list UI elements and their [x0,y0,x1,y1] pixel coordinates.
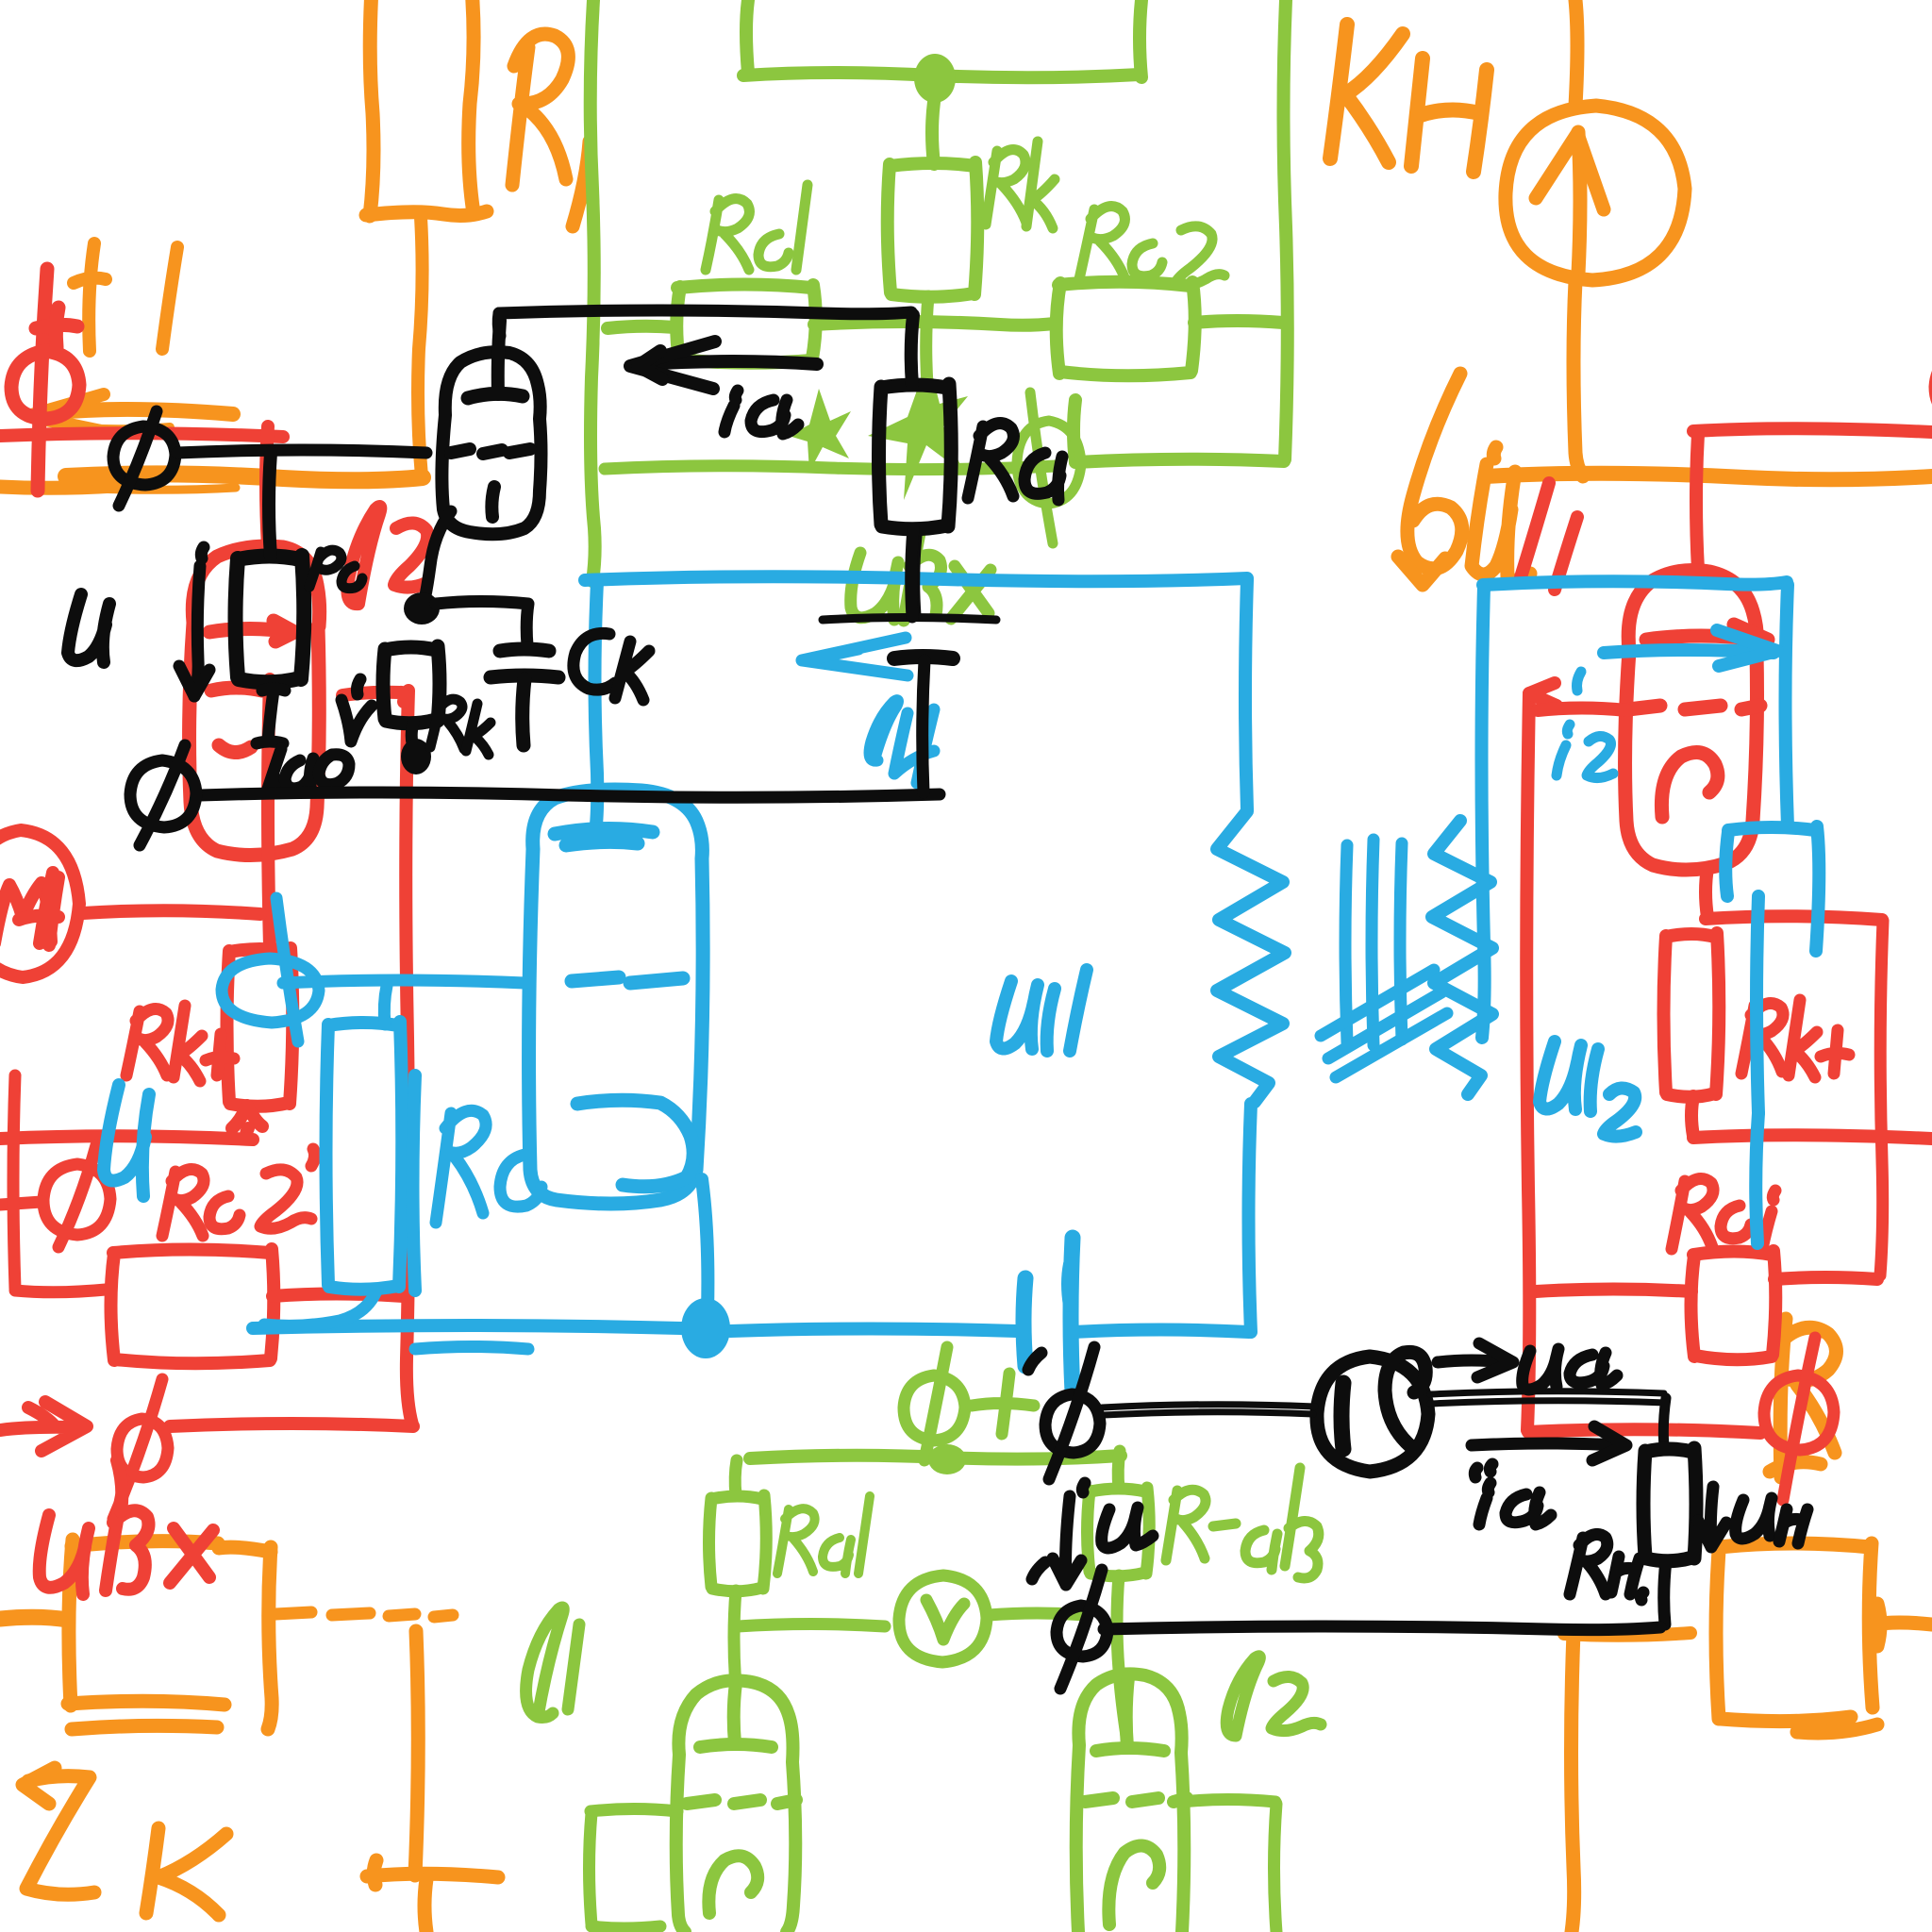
resistor Rc1 (red horizontal box, right) [1691,1251,1776,1359]
wire: red top-right horizontal (y~456) [1693,428,1932,432]
resistor Rk (green vertical box) [888,162,978,297]
resistor Ra1 (green vertical box) [709,1495,767,1591]
resistor Rn (black vertical box) [1643,1448,1696,1561]
resistor Rk2 (red vertical box) [227,948,293,1138]
wire: blue horizontal phi to Rc (y~1041) [283,980,525,983]
node phi (red small circle bottom-left) [113,1379,168,1519]
label Ubx (green) [851,528,991,621]
impedance box Zk (bottom-left orange square) [68,1540,272,1729]
resistor W2 zigzag (blue) [1432,821,1492,1094]
node (green blob at top) [914,54,956,103]
wire: Rc1 left lead (y~1368) [1536,1290,1691,1292]
wire: V1 grid lead down-left to node [425,511,451,600]
wire: blue right rect right edge [1786,585,1789,826]
wire: Rk1 bottom lead [1691,1096,1693,1136]
resistor Rc1 (green horizontal box) [676,285,816,363]
resistor W1 zigzag (blue) [1217,811,1285,1102]
wire: green bottom jog (y~489) [1075,459,1284,462]
label Re (black) [309,550,362,589]
label Rk4 (red) [126,1006,234,1081]
resistor R (top-left orange box) [366,0,487,216]
wire: phi1 + horizontal wire (y~478) [113,411,426,506]
wire: grid wire right of L2 [1183,1800,1275,1803]
node phi4 (black circle with slash) [1032,1562,1108,1689]
arrow i down (black, left of Re) [179,547,209,696]
node phi3 (black circle with slash) [1028,1347,1100,1479]
node (black dot) [404,592,440,625]
wire: Rab top lead [1118,1451,1120,1489]
resistor Rc (blue vertical box) [326,1022,416,1291]
wire: blue horizontal right of capacitor [1074,1330,1249,1333]
wire: green top bus with corner [743,0,1141,77]
wire: blue top horizontal (y~613) [585,576,1247,581]
wire: Rc1 right lead [1774,1277,1877,1279]
wire: orange horizontal band (left, y~507) [66,474,423,480]
label Rc1 (green) [706,185,808,270]
wire/arrow: red arrow bottom-left [0,1402,413,1451]
node phi2 (black circle with slash) [130,745,196,845]
label R' (big orange letter R-prime) [512,34,590,226]
current source (orange circle with up arrow) [1506,0,1685,476]
label m slashes (red, //) [1521,483,1577,590]
wire: red lead below tube [1706,868,1707,917]
resistor Rab (green vertical box) [1088,1488,1150,1576]
node phi (red circle bottom right) [1764,1338,1834,1500]
label R-ab (green) [1166,1468,1319,1578]
label L2 (red script, near tube) [347,507,427,604]
resistor Ra (black vertical box) [879,384,952,529]
wire: green horizontal bus (y~1543) [750,1456,1121,1459]
label Ra (black) [968,424,1062,500]
wire: long green vertical (x~628) [591,0,595,581]
label U (blue tall script) [104,1085,149,1196]
battery (black plates) [823,618,996,621]
tube (big blue, middle-left) [529,790,704,1204]
wire: blue vertical upper (x~1323) [1245,580,1247,809]
arrow left + ia (black, top middle) [630,341,817,389]
wire: lead down to Ra1 [735,1460,737,1495]
wire: lead right of box to edge [1874,1604,1932,1646]
wire: long red vertical (x~432) [406,691,412,1424]
wire: Rk bottom lead + node [411,723,413,743]
tube L2 (green triode, bottom) [1076,1674,1187,1932]
capacitor (blue, two bars) [1024,1238,1073,1392]
wire: Ra bottom lead [911,528,913,617]
label Rc2 (green) [1079,207,1224,286]
tube V2 (black circle, bottom middle) [1317,1352,1428,1472]
wire: lead from Rk down to green phi [925,296,928,420]
wire: Ra top lead [911,315,913,385]
wire: short orange under black (y~1732) [1564,1633,1690,1636]
wire: grid wire left of L1 [591,1809,677,1812]
label Rk (green) [986,142,1055,228]
winding W2 box (blue, small) [1725,826,1819,1113]
wire: battery top lead [915,536,917,615]
node (blue blob) [681,1298,730,1358]
label Rk (black, small) [430,699,491,755]
tube L1 (green triode, bottom middle-left) [676,1680,796,1932]
wire: bottom return wire (y~1725) [1104,1626,1660,1630]
wire: orange vertical with T-foot (x~440 bottom) [367,1631,498,1932]
wire: blue bottom horizontal right of node [730,1329,1017,1332]
wire: red bottom corner (y~1518) [1528,1429,1760,1433]
label ia (black script) [724,391,798,434]
label u + arrow down (black, near Rab) [1053,1483,1153,1585]
wire: blue vertical (x~632) down to tube [595,582,598,834]
label L2 (green script) [1226,1657,1321,1736]
wire: thin double wire left of V2 (y~1489) [1102,1405,1315,1415]
wire: dashed orange lead right of Zk [275,1612,453,1617]
wire: blue lead below tube to node [702,1179,708,1311]
wire: long green horizontal (y~494) [605,466,1057,470]
wire: blue vertical (x~1326) up to zigzag [1249,1104,1252,1332]
arrow right + ia (black, second) [1472,1426,1626,1477]
node phi (red circle with slash) [0,1145,110,1247]
label ia (black, top-right of V2 wire) [1490,1464,1492,1472]
label Rk1 (red) [1741,1000,1849,1077]
label L1 (blue script near battery) [870,701,934,783]
label L1 (green script) [526,1607,579,1718]
resistor Rk (black box, small) [383,646,440,724]
tube (red rounded box, right) [1625,571,1768,871]
arrow right + Ua (black) [1438,1343,1513,1377]
wire: long green vertical #2 (x~1363) [1284,0,1288,459]
wire: Rab bottom lead down to tube L2 [1117,1575,1126,1736]
wire: red lead down into tube (x~284) [266,426,268,547]
resistor Re (black vertical box, thick) [236,556,305,682]
label ia (black script, second) [1479,1483,1551,1524]
wire: blue capacitor top bar piece (x~1133) [1068,1264,1070,1306]
label phi+ (red, top-left) [11,269,79,491]
voltmeter V (green circle) [899,1575,987,1662]
wire: blue vertical (x~1862) lower [1756,1113,1758,1243]
wire: Re top lead [269,453,271,557]
arrow (blue, pointing left at battery) [802,638,908,675]
resistor Rk1 (red vertical box) [1664,933,1720,1097]
wire: orange thick scribble with left arrow (y~440) [57,409,233,414]
label I ao (black, below Re) [257,689,349,791]
wire: Rc top lead [384,986,387,1024]
node phi+ (green, bottom middle) [904,1347,1034,1460]
wire: red horizontal from circle to Rk2 (y~968) [83,910,260,914]
label Rc2 (red) [162,1149,315,1236]
label Kн (top-right orange) [1330,25,1487,172]
label W2 (blue script) [1540,1041,1636,1137]
impedance box (bottom-right orange square) [1716,1543,1877,1733]
spark blob #1 (green scribble) [789,389,851,472]
wire: lead below Ra1 to V-meter branch [734,1591,736,1687]
wire: V1 anode lead up + long top wire (y~332) [498,310,911,336]
wire: Rc bottom lead curving to phi [264,1289,377,1325]
wire: blue right rect left edge [1482,587,1485,1038]
resistor Rc2 (green horizontal box) [1057,282,1195,376]
tube V1 (black triode top-left) [441,321,541,534]
label W1 (blue script) [996,970,1087,1051]
wire: red horizontal (y~973) [1706,916,1882,920]
label Ra1 (green) [777,1496,870,1574]
label t1 (orange part of phi+1) [74,243,106,351]
wire: Rc1-Rc2 series lead (passes behind Ra) [814,322,1055,325]
wire: orange vertical lead from R down [418,217,423,476]
capacitor Ck (black) [491,649,558,745]
wire: orange horizontal right (y~506) [1486,474,1932,480]
wire: long bottom wire (y~842) [200,792,940,797]
tube (red rounded box, left) [190,546,320,855]
wire: node to Ck branch [436,602,528,646]
wire: red vertical through tube down to Rk2 [268,679,270,947]
label Rci (red) [1672,1179,1775,1250]
label Rн (black) [1570,1534,1643,1600]
wire: Rc2 right lead to red vertical [273,1294,404,1297]
wire: V-meter to Rab node [989,1613,1085,1615]
transformer core (blue bars + hatch) [1321,840,1447,1077]
spark blob #2 (green scribble over Ra) [868,358,968,500]
wire: battery bottom lead down to wire [923,660,924,792]
wire: red horizontal (y~461) [0,433,283,437]
resistor Rc2 (red horizontal box) [111,1249,275,1363]
label Rc (blue) [436,1110,541,1223]
wire: red horizontal stub (y~732) [342,692,405,702]
label Ua (black script) [1523,1349,1617,1390]
label i2 (blue small script) [1557,672,1613,778]
wire: Rc1 left lead [608,326,675,328]
wire: lead into Zk from left [0,1617,68,1620]
wire: blue phi + slash + wire (x~266,y~1045) [222,898,319,1041]
label бм (orange б with loop and arrow) [1398,374,1530,585]
arrow V down (black, right of Re) [341,679,372,741]
node (green blob on bus) [928,1444,966,1474]
label U (black) [68,594,109,662]
wire: red horizontal (y~1206) [0,1136,253,1140]
wire/arrow: blue bar with arrow inside right rect [1604,630,1777,666]
label Ck (black) [574,633,649,700]
label R (tall orange letter bottom right) [1770,1319,1837,1477]
label Ubx (red script bottom-left) [40,1460,213,1594]
arrow down + Un (black) [1698,1487,1807,1547]
wire: corner down into Rn [1663,1398,1666,1447]
wire: thin double wire right of V2 (y~1480) [1430,1391,1666,1404]
wire: blue bottom-right stub (y~1429) [415,1347,528,1350]
wire: red lead down into right tube [1696,434,1698,570]
wire: lead from node down to Rk [932,102,934,164]
label Zk (orange letters) [23,1768,226,1915]
circle m (red, left edge) [0,830,79,977]
wire: long red vertical (x~1621) with top barb [1526,683,1626,1430]
wire: orange vertical long (x~1668 bottom) [1572,1632,1574,1932]
node phi (green circle with slash, right of Ra) [1017,392,1081,543]
wire: red corner frame (left) [13,1075,106,1292]
wire: Rc2 right lead to long vertical [1194,321,1283,323]
wire: blue right rectangle top (y~618) [1483,581,1787,585]
wire: red vertical right (x~1994) [1880,921,1883,1275]
wire: red horizontal (y~1205) [1693,1135,1932,1139]
wire: Rn bottom lead [1664,1560,1666,1624]
wire: blue bottom horizontal left of node (y~1407) [253,1325,681,1328]
